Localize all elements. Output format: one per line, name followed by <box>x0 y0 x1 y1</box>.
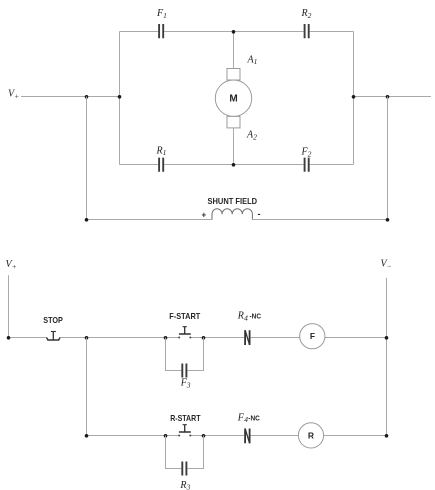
contact R1 (NO contact in bottom line) <box>159 158 163 172</box>
coil F (forward contactor coil) <box>300 324 325 349</box>
svg-text:F: F <box>310 331 315 341</box>
wire: vertical branch from rung1 to rung2 <box>86 338 88 436</box>
contact R3 (NO holding contact) <box>182 462 186 476</box>
junction node (shunt field bottom right) <box>386 218 390 222</box>
wire: F3 holding branch (parallel loop below F-START) <box>166 338 204 371</box>
wire: shunt field left vertical <box>86 97 88 220</box>
contact R2 (NO contact in top line) <box>305 24 309 38</box>
junction node (rung2 / inter-rung branch) <box>85 434 89 438</box>
contact F1 (NO contact in top line) <box>159 24 163 38</box>
contact R4-NC (NC interlock contact) <box>245 330 250 345</box>
junction node (bridge bottom / motor branch) <box>232 163 236 167</box>
wire: ladder right rail <box>386 278 388 436</box>
svg-text:F-START: F-START <box>169 311 201 321</box>
wire: R3 holding branch (parallel loop below R-START) <box>166 436 204 469</box>
wire: motor branch upper segment <box>233 32 235 69</box>
wire: shunt field right vertical <box>387 97 389 220</box>
junction node (rung1 / inter-rung branch) <box>85 336 89 340</box>
junction node (supply line / shunt field right) <box>386 95 390 99</box>
junction node (R-START branch right) <box>202 434 206 438</box>
svg-text:R: R <box>308 430 314 440</box>
wire: ladder left rail <box>8 275 10 337</box>
wire: bridge top line (gaps at F1 and R2 contacts) <box>120 31 354 33</box>
wire: shunt field bottom line <box>87 219 388 221</box>
contact F4-NC (NC interlock contact) <box>245 429 250 444</box>
pushbutton F-START (NO) <box>178 327 191 339</box>
junction node (shunt field bottom left) <box>85 218 89 222</box>
pushbutton STOP (NC) <box>47 332 61 341</box>
svg-text:-: - <box>258 209 261 219</box>
wire: bridge bottom line (gaps at R1 and F2 contacts) <box>120 164 354 166</box>
junction node (bridge top / motor branch) <box>232 30 236 34</box>
svg-text:R-START: R-START <box>170 413 201 423</box>
contact F3 (NO holding contact) <box>182 364 186 378</box>
junction node (supply line / shunt field left) <box>85 95 89 99</box>
svg-text:-NC: -NC <box>250 311 262 320</box>
junction node (supply line / bridge right) <box>352 95 356 99</box>
svg-text:M: M <box>229 94 237 105</box>
junction node (R-START branch left) <box>164 434 168 438</box>
junction node (rung1 / right rail) <box>385 336 389 340</box>
pushbutton R-START (NO) <box>178 425 191 437</box>
svg-text:SHUNT FIELD: SHUNT FIELD <box>208 196 258 206</box>
contact F2 (NO contact in bottom line) <box>305 158 309 172</box>
junction node (rung1 / left rail) <box>7 336 11 340</box>
svg-text:STOP: STOP <box>43 315 63 325</box>
junction node (supply line / bridge left) <box>118 95 122 99</box>
inductor SHUNT FIELD coil <box>212 209 252 220</box>
wire: bridge left vertical <box>119 32 121 165</box>
wire: rung 1 (F coil rung, gaps at STOP, F-START, R4-NC, coil F) <box>9 337 387 339</box>
junction node (rung2 / right rail) <box>385 434 389 438</box>
wire: main horizontal supply line <box>21 96 431 98</box>
wire: motor branch lower segment <box>233 128 235 165</box>
wire: rung 2 (R coil rung, gaps at R-START, F4-NC, coil R) <box>87 435 387 437</box>
motor M (armature circle) <box>215 80 251 116</box>
coil R (reverse contactor coil) <box>298 423 323 448</box>
wire: bridge right vertical <box>353 32 355 165</box>
junction node (F-START branch right) <box>202 336 206 340</box>
motor terminal block A2 (bottom brush) <box>227 116 240 128</box>
junction node (F-START branch left) <box>164 336 168 340</box>
svg-text:+: + <box>202 211 207 220</box>
motor terminal block A1 (top brush) <box>227 69 240 81</box>
svg-text:-NC: -NC <box>248 413 260 422</box>
